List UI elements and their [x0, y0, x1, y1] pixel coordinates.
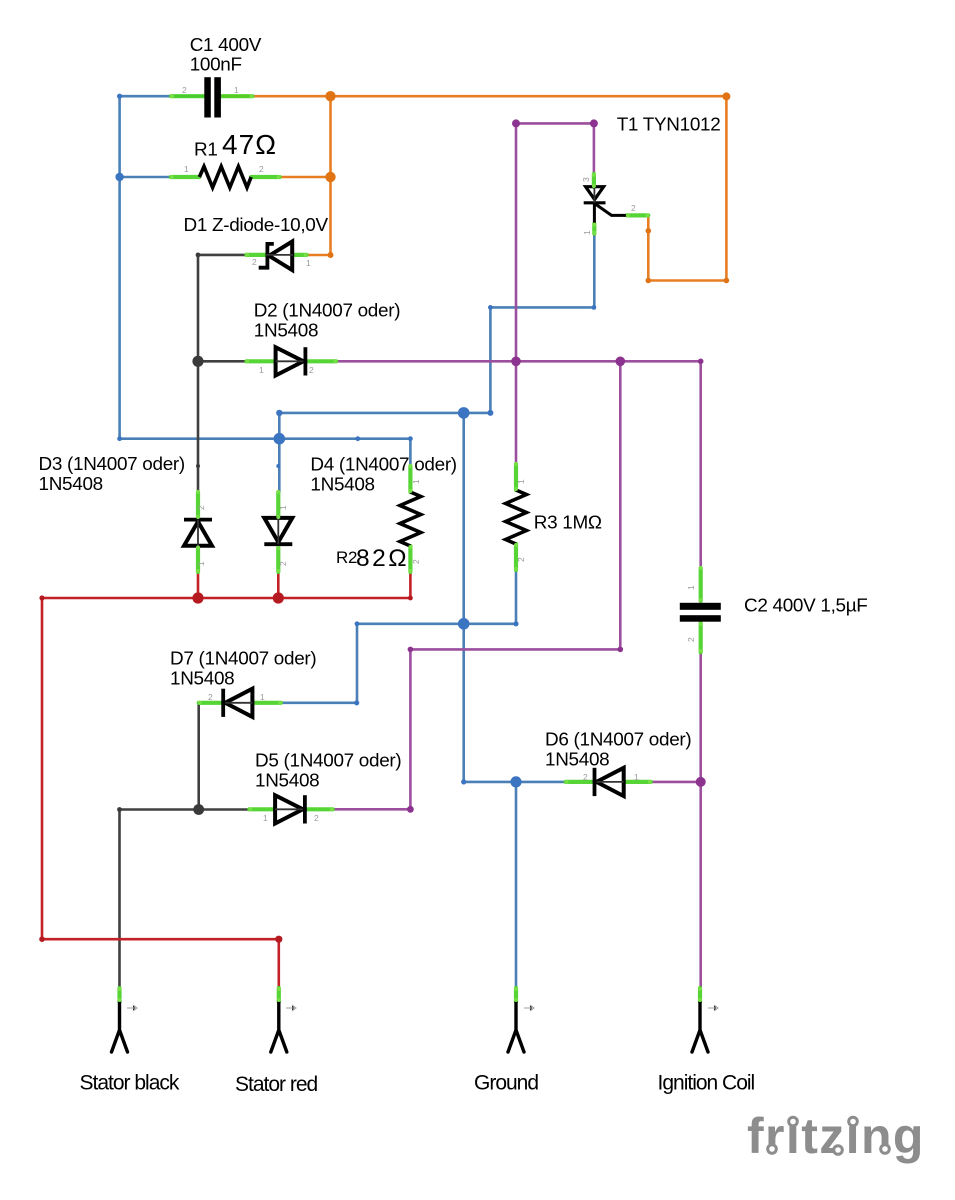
- svg-text:D2 (1N4007 oder): D2 (1N4007 oder): [254, 300, 400, 321]
- svg-text:1: 1: [411, 479, 421, 484]
- svg-text:82Ω: 82Ω: [356, 545, 409, 572]
- svg-text:2: 2: [309, 365, 314, 375]
- svg-text:1: 1: [278, 505, 288, 510]
- svg-text:1: 1: [260, 692, 265, 702]
- svg-text:Ground: Ground: [474, 1072, 538, 1095]
- svg-text:Stator red: Stator red: [235, 1073, 318, 1096]
- svg-text:D5 (1N4007 oder): D5 (1N4007 oder): [255, 751, 401, 772]
- svg-text:100nF: 100nF: [190, 55, 242, 76]
- svg-text:1: 1: [263, 813, 268, 823]
- svg-text:2: 2: [516, 557, 526, 562]
- svg-text:2: 2: [411, 559, 421, 564]
- svg-text:2: 2: [252, 257, 257, 267]
- svg-text:2: 2: [196, 505, 206, 510]
- svg-text:frıtzıng: frıtzıng: [747, 1108, 925, 1164]
- svg-text:3: 3: [581, 177, 591, 182]
- svg-text:D7 (1N4007 oder): D7 (1N4007 oder): [170, 649, 316, 670]
- svg-text:2: 2: [278, 561, 288, 566]
- svg-text:2: 2: [631, 203, 636, 213]
- svg-text:1: 1: [582, 230, 592, 235]
- svg-text:1N5408: 1N5408: [170, 668, 234, 689]
- svg-text:2: 2: [259, 164, 264, 174]
- svg-text:2: 2: [208, 692, 213, 702]
- svg-text:1: 1: [234, 85, 239, 95]
- svg-text:C2 400V 1,5µF: C2 400V 1,5µF: [744, 596, 868, 617]
- svg-text:1: 1: [306, 258, 311, 268]
- svg-text:2: 2: [314, 813, 319, 823]
- svg-text:C1 400V: C1 400V: [190, 35, 262, 56]
- svg-text:1N5408: 1N5408: [255, 770, 319, 791]
- svg-text:T1 TYN1012: T1 TYN1012: [617, 115, 721, 136]
- svg-text:1: 1: [634, 772, 639, 782]
- svg-text:R1: R1: [194, 139, 218, 160]
- svg-text:D1 Z-diode-10,0V: D1 Z-diode-10,0V: [184, 215, 329, 236]
- svg-text:Stator black: Stator black: [80, 1072, 180, 1095]
- svg-text:2: 2: [583, 772, 588, 782]
- svg-text:1: 1: [686, 585, 696, 590]
- svg-text:1: 1: [259, 365, 264, 375]
- svg-text:R3 1MΩ: R3 1MΩ: [534, 513, 602, 534]
- svg-text:R2: R2: [336, 548, 357, 567]
- svg-text:1: 1: [516, 479, 526, 484]
- svg-text:2: 2: [182, 85, 187, 95]
- svg-text:D3 (1N4007 oder): D3 (1N4007 oder): [39, 454, 185, 475]
- svg-text:1: 1: [184, 164, 189, 174]
- svg-text:Ignition Coil: Ignition Coil: [658, 1072, 755, 1095]
- svg-text:1N5408: 1N5408: [310, 474, 374, 495]
- svg-text:47Ω: 47Ω: [222, 129, 277, 160]
- svg-text:1N5408: 1N5408: [254, 321, 318, 342]
- svg-text:D6 (1N4007 oder): D6 (1N4007 oder): [545, 730, 691, 751]
- svg-text:D4 (1N4007 oder): D4 (1N4007 oder): [310, 455, 456, 476]
- svg-text:2: 2: [686, 637, 696, 642]
- svg-text:1: 1: [196, 561, 206, 566]
- svg-text:1N5408: 1N5408: [545, 749, 609, 770]
- svg-text:1N5408: 1N5408: [39, 474, 103, 495]
